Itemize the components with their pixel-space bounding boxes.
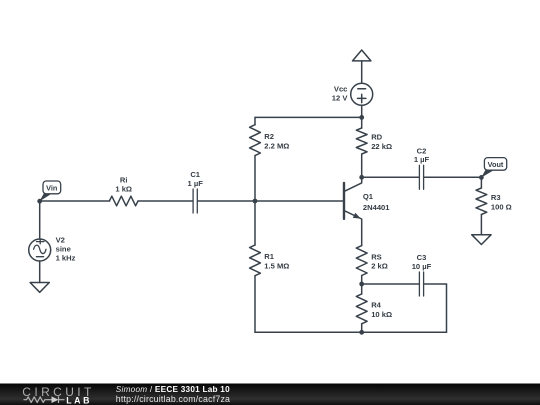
- wire: [39, 201, 41, 239]
- voltage source Vcc: [351, 83, 373, 105]
- svg-text:LAB: LAB: [66, 395, 92, 405]
- svg-text:2.2 MΩ: 2.2 MΩ: [264, 141, 289, 150]
- svg-text:2 kΩ: 2 kΩ: [371, 262, 388, 271]
- wire: [362, 283, 419, 285]
- node Vout: [479, 175, 484, 180]
- svg-text:100 Ω: 100 Ω: [491, 202, 512, 211]
- svg-text:1 µF: 1 µF: [188, 179, 204, 188]
- svg-text:R3: R3: [491, 193, 501, 202]
- resistor R4: [356, 294, 367, 324]
- svg-text:Vin: Vin: [46, 183, 57, 192]
- svg-text:C2: C2: [417, 146, 427, 155]
- svg-text:R1: R1: [264, 252, 274, 261]
- svg-text:http://circuitlab.com/cacf7za: http://circuitlab.com/cacf7za: [116, 394, 230, 404]
- svg-text:1 kΩ: 1 kΩ: [115, 185, 132, 194]
- wire: [361, 324, 363, 333]
- wire: [361, 154, 363, 177]
- resistor Ri: [109, 196, 138, 206]
- wire: [446, 284, 448, 332]
- svg-text:R2: R2: [264, 132, 274, 141]
- wire: [361, 105, 363, 128]
- capacitor C2: [419, 165, 423, 189]
- svg-text:V2: V2: [56, 236, 65, 245]
- svg-text:Vcc: Vcc: [334, 84, 348, 93]
- flag Vout: [481, 158, 506, 178]
- wire: [424, 176, 481, 178]
- svg-text:Q1: Q1: [363, 192, 374, 201]
- node Vin: [37, 199, 42, 204]
- svg-text:22 kΩ: 22 kΩ: [371, 142, 392, 151]
- wire: [255, 331, 447, 333]
- flag Vin: [39, 181, 60, 202]
- wire: [254, 117, 256, 124]
- wire: [362, 176, 419, 178]
- wire: [361, 61, 363, 83]
- svg-text:Simoom / EECE 3301 Lab 10: Simoom / EECE 3301 Lab 10: [116, 385, 230, 394]
- node R4 bottom: [359, 330, 364, 335]
- wire: [138, 200, 193, 202]
- transistor Q1: [343, 183, 345, 219]
- svg-text:R4: R4: [371, 301, 381, 310]
- svg-text:sine: sine: [56, 245, 71, 254]
- resistor RD: [356, 128, 367, 154]
- wire: [254, 156, 256, 245]
- footer bar: [0, 384, 540, 405]
- svg-text:RD: RD: [371, 133, 382, 142]
- resistor R2: [250, 125, 261, 156]
- power flag Vcc: [353, 50, 371, 61]
- resistor R3: [476, 188, 487, 215]
- capacitor C3: [419, 272, 423, 296]
- svg-text:C1: C1: [190, 170, 200, 179]
- svg-text:Vout: Vout: [488, 160, 504, 169]
- wire: [480, 215, 482, 235]
- node emitter: [359, 282, 364, 287]
- svg-text:1 kHz: 1 kHz: [56, 254, 76, 263]
- wire: [198, 200, 343, 202]
- wire: [361, 276, 363, 294]
- node Vcc: [359, 115, 364, 120]
- resistor R1: [250, 245, 261, 276]
- svg-text:12 V: 12 V: [332, 93, 349, 102]
- wire: [40, 200, 110, 202]
- svg-text:C3: C3: [417, 253, 427, 262]
- node base: [253, 199, 258, 204]
- wire: [424, 283, 446, 285]
- node collector: [359, 175, 364, 180]
- wire: [39, 261, 41, 283]
- wire: [255, 116, 362, 118]
- svg-text:Ri: Ri: [120, 175, 128, 184]
- logo CircuitLab: [22, 385, 94, 405]
- ground: [472, 235, 491, 245]
- ground: [30, 283, 49, 293]
- voltage source V2: [29, 239, 51, 261]
- svg-text:2N4401: 2N4401: [363, 203, 390, 212]
- svg-text:10 µF: 10 µF: [412, 262, 432, 271]
- svg-text:1 µF: 1 µF: [414, 155, 430, 164]
- capacitor C1: [193, 189, 197, 213]
- svg-text:10 kΩ: 10 kΩ: [371, 310, 392, 319]
- resistor RS: [356, 246, 367, 276]
- wire: [254, 276, 256, 333]
- wire: [480, 177, 482, 188]
- svg-text:1.5 MΩ: 1.5 MΩ: [264, 262, 289, 271]
- svg-text:RS: RS: [371, 252, 382, 261]
